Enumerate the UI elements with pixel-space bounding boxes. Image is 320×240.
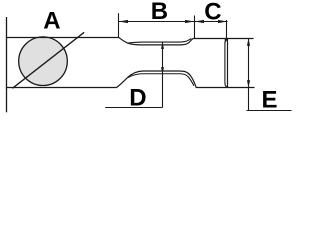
shelf E [247, 110, 292, 112]
right end outer vertical [227, 39, 229, 88]
arrow B left [119, 20, 128, 23]
dim line E vertical [248, 39, 250, 111]
svg-text:C: C [204, 0, 221, 26]
arrow C right [218, 20, 227, 23]
dim B extension left [118, 13, 120, 37]
dim C extension right [226, 20, 228, 39]
arrow B right [185, 20, 194, 23]
arrow E up [247, 39, 250, 46]
svg-text:A: A [43, 8, 60, 35]
svg-text:E: E [262, 87, 278, 114]
neck bottom main line [116, 71, 196, 88]
neck bottom branch line [128, 74, 194, 86]
leader diagonal through hole [12, 32, 84, 88]
neck top main line [119, 37, 194, 45]
neck top branch line [128, 39, 192, 44]
hole circle fill [19, 37, 68, 86]
dim B/C extension middle [194, 16, 196, 39]
dim line B [119, 21, 195, 23]
arrow E down [247, 80, 250, 87]
shelf D [105, 107, 162, 109]
svg-text:D: D [129, 84, 146, 111]
top edge right section (extends right for E) [194, 38, 254, 40]
right end top wedge [225, 39, 228, 44]
left edge (with overshoot) [6, 17, 8, 112]
dim line D vertical [162, 42, 164, 107]
top edge left section [6, 37, 119, 39]
bottom edge right section (extends right for E) [196, 87, 254, 89]
arrow D up [161, 42, 164, 49]
bottom edge left section [6, 87, 116, 89]
arrow C left [195, 20, 204, 23]
arrow D down [161, 67, 164, 74]
right end inner vertical [225, 42, 229, 88]
svg-text:B: B [151, 0, 168, 25]
dim line C [195, 21, 228, 23]
